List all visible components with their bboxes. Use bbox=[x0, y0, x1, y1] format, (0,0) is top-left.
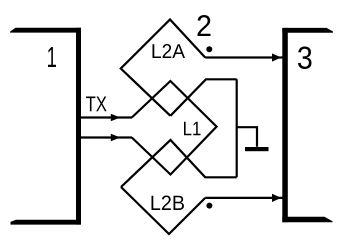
polarity dot L2A bbox=[206, 46, 212, 52]
wire L2B to port 3 bbox=[205, 197, 282, 199]
wire balance leg to L2B bbox=[121, 140, 237, 187]
inductor L2A bbox=[121, 20, 205, 116]
TX label bbox=[86, 97, 107, 112]
ground bbox=[245, 147, 269, 151]
arrowhead TX upper bbox=[111, 114, 121, 121]
port 1 connector bbox=[10, 28, 81, 225]
arrowhead TX lower bbox=[111, 134, 121, 141]
wire TX lower from port 1 bbox=[81, 136, 132, 138]
port 2 label bbox=[198, 15, 211, 36]
polarity dot L2B bbox=[206, 203, 212, 209]
wire L2A to balance leg bbox=[170, 79, 236, 116]
inductor L2B value label bbox=[152, 196, 185, 211]
inductor L1 value label bbox=[184, 122, 201, 136]
inductor L2A value label bbox=[153, 44, 186, 58]
wire TX upper from port 1 bbox=[81, 116, 132, 118]
arrowhead into port 3 bottom bbox=[272, 194, 281, 202]
inductor L1 bbox=[132, 81, 217, 175]
port 1 label bbox=[48, 47, 56, 67]
inductor L2B bbox=[121, 187, 205, 234]
port 3 label bbox=[298, 47, 312, 70]
arrowhead into port 3 top bbox=[272, 53, 281, 61]
port 3 connector bbox=[282, 28, 333, 222]
wire center tap to ground bbox=[237, 127, 257, 147]
wire balance leg right side bbox=[236, 79, 238, 177]
wire L2A to port 3 (node 2) bbox=[205, 56, 282, 58]
